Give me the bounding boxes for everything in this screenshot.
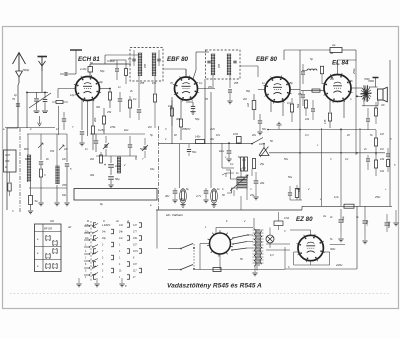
wire x58 <box>57 106 59 135</box>
svg-text:250v: 250v <box>374 196 381 199</box>
svg-text:0,3: 0,3 <box>305 134 309 137</box>
faint fold line <box>10 293 390 295</box>
flat box dial rail <box>74 189 157 201</box>
power transformer TR2 <box>254 229 256 266</box>
arrow across AF choke <box>230 175 248 191</box>
wires under V3 <box>270 101 272 112</box>
svg-text:0,5A: 0,5A <box>284 217 289 220</box>
antenna symbol <box>13 53 26 65</box>
resistor 25k <box>100 155 103 163</box>
wire grid left <box>58 88 76 90</box>
svg-text:2-10p: 2-10p <box>79 68 87 71</box>
wire anode up <box>89 72 91 77</box>
speaker loop wires <box>369 86 378 88</box>
svg-text:10%: 10% <box>233 133 239 136</box>
svg-text:0,1: 0,1 <box>128 57 132 61</box>
svg-text:40v: 40v <box>210 137 215 141</box>
arrow hooks <box>38 143 43 148</box>
svg-text:50p: 50p <box>195 117 200 121</box>
tube V2 EBF80 <box>175 77 198 100</box>
wires misc power <box>340 232 342 238</box>
svg-text:1,32kHz: 1,32kHz <box>102 225 111 227</box>
fuse F2 <box>274 221 283 226</box>
grid feed wire EL84 <box>301 90 325 92</box>
40v cap-resistor pair 2 <box>210 144 212 188</box>
mains switch S2 <box>168 248 180 250</box>
T2 secondary <box>226 54 228 75</box>
svg-text:40v: 40v <box>180 197 185 201</box>
wire V3 right <box>290 89 300 91</box>
svg-text:50μ: 50μ <box>115 177 120 181</box>
ground G2 <box>56 185 58 202</box>
ground G3 <box>66 190 68 202</box>
svg-text:455: 455 <box>218 63 221 68</box>
bottom right rails <box>356 206 358 269</box>
tube V1 ECH81 <box>76 77 100 101</box>
svg-text:20n: 20n <box>329 78 335 81</box>
output transformer TR1 star hatch <box>361 93 372 95</box>
loudspeaker LS1 <box>378 89 384 100</box>
svg-text:GR: GR <box>50 220 54 223</box>
svg-text:30k: 30k <box>90 173 95 177</box>
svg-text:f=460k: f=460k <box>107 59 116 63</box>
svg-text:500p: 500p <box>23 68 30 72</box>
electrolytic C24 <box>339 219 344 221</box>
capacitor under T1 <box>137 109 141 111</box>
wire feed to mains switch <box>156 210 158 249</box>
T1 secondary coil <box>151 53 153 76</box>
svg-text:5000p: 5000p <box>388 221 391 228</box>
capacitor C12 <box>118 98 122 100</box>
svg-text:20k: 20k <box>89 158 95 161</box>
coil antenna L1 <box>27 155 29 182</box>
contact pair 1 <box>84 225 89 227</box>
svg-text:EL 84: EL 84 <box>332 60 349 67</box>
svg-text:84o: 84o <box>150 167 155 171</box>
contact pair 7 <box>84 267 89 269</box>
svg-text:160μ: 160μ <box>115 164 122 168</box>
capacitor C4 <box>62 118 66 120</box>
svg-text:MW: MW <box>24 148 29 151</box>
ground G6 <box>96 278 98 283</box>
resistor 10k above bus <box>237 137 242 144</box>
svg-text:0,1: 0,1 <box>199 82 203 85</box>
T1 trimmers <box>132 58 135 60</box>
wire top small <box>110 59 126 61</box>
wires AF cluster <box>221 143 223 168</box>
svg-text:AVC: AVC <box>209 128 215 131</box>
svg-text:LW: LW <box>64 148 68 151</box>
capacitor 50n below bus <box>188 144 190 148</box>
capacitor C6 <box>80 131 84 133</box>
svg-text:455: 455 <box>140 82 145 85</box>
resistor R8 <box>179 119 182 127</box>
svg-text:VD: VD <box>381 104 385 107</box>
resistor R14 <box>328 113 331 121</box>
svg-text:Ae: Ae <box>331 43 336 47</box>
wires under V1 <box>81 100 83 130</box>
resistor under T1 <box>153 94 156 102</box>
svg-text:50p: 50p <box>246 90 251 93</box>
motor/turntable circle M1 <box>210 233 231 254</box>
AF choke block <box>237 177 247 179</box>
ground up symbol on tone row <box>278 125 280 130</box>
svg-text:0,5: 0,5 <box>298 93 302 96</box>
svg-text:250v: 250v <box>352 68 356 75</box>
T1 primary coil <box>137 53 139 76</box>
svg-text:ANT: ANT <box>5 153 11 157</box>
contact pair 5 <box>84 253 89 255</box>
svg-text:455: 455 <box>144 63 147 68</box>
T2 trimmers <box>207 60 210 62</box>
heater wires <box>266 249 290 251</box>
table coil glyphs <box>46 236 50 241</box>
variable capacitor gang 2 <box>43 98 48 100</box>
svg-text:470k: 470k <box>110 126 116 129</box>
svg-text:20k: 20k <box>259 181 265 185</box>
resistor R16 <box>374 138 377 146</box>
svg-text:6,3v: 6,3v <box>334 196 339 199</box>
tuning gang arrow <box>29 93 51 108</box>
contact pair 8 <box>84 274 89 276</box>
40v cap-resistor pair 1 <box>179 144 181 188</box>
resistor R9 <box>170 108 173 116</box>
svg-text:135: 135 <box>323 119 327 124</box>
resistor R2 left low <box>29 196 33 205</box>
resistor left margin <box>8 183 11 191</box>
svg-text:2n: 2n <box>363 148 367 151</box>
wires under V2 <box>180 99 182 118</box>
svg-text:+50μ: +50μ <box>365 220 369 226</box>
capacitor under T2 <box>228 89 232 91</box>
TR2 hatching <box>253 229 264 231</box>
IF transformer T2 dashed box <box>206 50 241 79</box>
svg-text:12p: 12p <box>70 93 75 97</box>
wire row y134 <box>27 133 67 135</box>
svg-text:50v: 50v <box>296 187 301 191</box>
svg-text:140v: 140v <box>195 136 201 139</box>
resistor R17 <box>374 160 377 168</box>
ground G5 <box>78 278 80 283</box>
resistor R18 10k upper <box>295 189 298 198</box>
electrolytic C25 <box>363 220 368 222</box>
resistor 1.5k on bus <box>196 140 205 144</box>
resistor R1 <box>56 101 63 104</box>
IF transformer T1 dashed box <box>130 48 163 82</box>
wire V2 right <box>198 88 216 90</box>
ground under transformer <box>254 266 256 272</box>
wires power top <box>278 212 280 216</box>
svg-text:EZ 80: EZ 80 <box>296 216 313 223</box>
wire top right bus <box>284 49 330 51</box>
capacitor C11 <box>115 68 119 70</box>
EZ80 tube V5 <box>298 235 323 260</box>
capacitor above tube <box>64 72 66 76</box>
capacitor C17 <box>311 108 315 110</box>
vertical lines x205/211 <box>204 79 206 144</box>
svg-text:Ai: Ai <box>115 219 119 223</box>
svg-text:20k: 20k <box>93 117 97 123</box>
svg-text:50v: 50v <box>262 127 267 131</box>
svg-text:MW: MW <box>25 157 30 161</box>
resistor third mid <box>252 159 255 169</box>
electrolytic pair mid <box>241 157 244 171</box>
svg-text:50p: 50p <box>100 69 105 73</box>
svg-text:137v: 137v <box>133 251 139 253</box>
contact pair 6 <box>84 260 89 262</box>
coil L5 small <box>307 69 317 71</box>
svg-text:RF GR: RF GR <box>44 227 52 231</box>
wire V2 top to T2 <box>185 69 187 77</box>
padder capacitor <box>94 140 98 142</box>
svg-text:+: + <box>104 163 106 167</box>
V2 plate to T2 <box>193 70 196 79</box>
wire y143.7 bus <box>159 143 253 145</box>
capacitor near R18 <box>288 192 292 194</box>
feedback junction <box>356 95 362 97</box>
cathode parts <box>329 100 331 112</box>
electrolytic C20 50u <box>108 176 114 178</box>
svg-text:HF- Váltható: HF- Váltható <box>166 213 183 217</box>
tube V3 EBF80 <box>265 77 290 102</box>
svg-text:6,3: 6,3 <box>270 254 274 257</box>
capacitor C13 <box>186 101 193 103</box>
ground G4 <box>40 190 42 202</box>
svg-text:300: 300 <box>5 159 10 163</box>
volume pot P1 <box>259 148 269 156</box>
svg-text:10k: 10k <box>305 117 310 121</box>
svg-text:40v: 40v <box>165 194 170 198</box>
wire segments antenna coupling <box>18 83 19 85</box>
wire right of V1 <box>100 88 111 90</box>
wire anode top <box>337 60 339 75</box>
switch contact column dashed <box>90 221 92 282</box>
EZ80 leads <box>310 230 312 235</box>
svg-text:+50μ: +50μ <box>341 216 345 222</box>
svg-text:kHz: kHz <box>152 82 157 85</box>
svg-text:50k: 50k <box>296 103 300 108</box>
svg-text:25k: 25k <box>207 86 213 89</box>
svg-text:0,1: 0,1 <box>133 97 137 101</box>
oscillator coil L3 <box>117 157 119 173</box>
wire left vertical bus lower <box>7 127 18 129</box>
svg-text:0,3: 0,3 <box>287 101 291 105</box>
svg-text:4v: 4v <box>323 214 327 218</box>
wire y155 bus right <box>263 144 265 147</box>
svg-text:4,7v: 4,7v <box>196 194 202 198</box>
resistor R7 <box>128 100 131 108</box>
capacitor C15 <box>301 71 305 73</box>
wire to ground bus <box>240 196 242 210</box>
wire feeds into left cluster <box>27 134 29 155</box>
resistor far right <box>387 160 390 167</box>
contact pair 3 <box>84 239 89 241</box>
svg-text:455: 455 <box>234 82 239 85</box>
wire osc to electro <box>110 134 112 156</box>
right edge ground <box>395 210 397 222</box>
svg-text:50n: 50n <box>192 150 197 154</box>
svg-text:Vadásztöltény R545 és R545 A: Vadásztöltény R545 és R545 A <box>167 283 262 290</box>
chassis T symbol <box>373 77 379 79</box>
switch arms to transformer <box>233 235 247 238</box>
contact pair 2 <box>84 232 89 234</box>
screen dash-dot vertical x158.5 <box>158 126 160 210</box>
svg-text:450: 450 <box>62 183 67 187</box>
svg-text:25μ: 25μ <box>259 163 265 166</box>
ground G1 <box>28 210 33 212</box>
bank brackets col4 <box>139 223 142 227</box>
coil L2 <box>55 166 57 184</box>
wire coil bottoms row <box>29 187 67 189</box>
capacitor C14 <box>258 120 262 122</box>
svg-text:2p: 2p <box>13 94 17 97</box>
bank ground <box>121 278 123 283</box>
right edge cap <box>385 222 390 224</box>
wire plate to transformer <box>351 87 362 89</box>
resistor R10 <box>252 101 256 110</box>
resistor R15 under speaker <box>375 102 377 108</box>
T1 leads down <box>138 76 140 108</box>
wire osc top <box>90 133 145 135</box>
mains fuse on bottom line <box>213 268 221 272</box>
variable capacitor gang 1 <box>34 98 39 100</box>
right verticals <box>299 50 301 200</box>
svg-text:kHz: kHz <box>124 128 129 132</box>
capacitor C21 HFv <box>227 150 232 152</box>
resistor R3 <box>91 126 94 134</box>
junction dots <box>26 92 28 94</box>
svg-text:300: 300 <box>176 117 181 121</box>
svg-text:84o: 84o <box>62 194 67 197</box>
svg-text:6-25p: 6-25p <box>98 128 105 132</box>
capacitor C23 <box>366 158 370 160</box>
svg-text:455kHz: 455kHz <box>182 128 191 131</box>
capacitor C2 <box>40 150 42 160</box>
svg-text:Ae: Ae <box>329 51 334 55</box>
fuse F1 <box>330 48 342 53</box>
earth/aerial 2 symbol <box>38 56 48 58</box>
transformer top lead <box>256 207 258 230</box>
svg-text:KW: KW <box>50 150 55 153</box>
svg-text:1M: 1M <box>246 102 250 107</box>
wire row y=92.4 <box>27 91 48 93</box>
svg-text:220v: 220v <box>335 263 343 267</box>
capacitor C5 top <box>75 50 77 74</box>
electrolytic C19 160u <box>108 164 114 166</box>
coil table box <box>35 224 62 272</box>
choke left hook leads <box>226 170 237 179</box>
pilot lamp circle-X <box>266 235 274 243</box>
svg-text:AF: AF <box>67 226 72 229</box>
svg-text:300v: 300v <box>330 248 336 251</box>
wire transformer bottom <box>256 266 258 271</box>
svg-text:EBF 80: EBF 80 <box>256 56 278 63</box>
resistor R6 <box>108 92 111 100</box>
capacitor C22 <box>254 180 259 182</box>
tube V4 EL84 <box>324 75 351 102</box>
screen dash-dot line <box>19 128 21 212</box>
left margin connector box <box>4 150 17 172</box>
resistor R12 <box>320 66 323 74</box>
resistor R11 <box>290 104 293 112</box>
wire row y127.5 left <box>5 127 55 129</box>
capacitor C16 <box>301 94 305 96</box>
wire bottom left continuation <box>195 269 285 271</box>
resistor 2k <box>39 169 42 177</box>
svg-text:LW: LW <box>62 157 66 161</box>
wire long bus y=210 <box>156 209 302 211</box>
capacitor C3 <box>66 152 68 162</box>
resistor on grid wire <box>312 89 320 92</box>
svg-text:25k: 25k <box>106 110 112 114</box>
resistor R4 <box>102 116 105 124</box>
grid cap component <box>88 67 93 73</box>
capacitor far right <box>386 153 390 155</box>
svg-text:Ω: Ω <box>5 165 7 169</box>
T2 leads <box>212 75 214 88</box>
svg-text:10k: 10k <box>380 157 385 161</box>
svg-text:0,1: 0,1 <box>345 158 349 161</box>
svg-text:25μ: 25μ <box>249 193 255 197</box>
trimmer T2 <box>104 144 106 148</box>
wire V3 left grid <box>258 89 265 91</box>
switch arm S1 <box>252 138 263 144</box>
resistor R5 <box>125 69 128 76</box>
wire bus y=206.3 right <box>302 205 392 207</box>
resistor R19 1k <box>344 204 354 208</box>
svg-text:20: 20 <box>346 134 350 137</box>
wire tone row y129.5 <box>268 129 376 131</box>
svg-text:7000: 7000 <box>364 78 370 81</box>
svg-text:A: A <box>126 219 129 223</box>
svg-text:EBF 80: EBF 80 <box>167 56 189 63</box>
svg-text:0,1: 0,1 <box>230 163 234 166</box>
T2 primary <box>210 54 212 75</box>
AGC arrow down <box>39 116 41 124</box>
resistor R13 50k <box>304 100 307 108</box>
svg-text:5a: 5a <box>35 199 39 203</box>
contact pair 4 <box>84 246 89 248</box>
capacitor on left bus 1 <box>16 103 20 105</box>
wire left vertical bus upper <box>17 85 19 128</box>
wire IF1 enclosure stub <box>104 55 106 64</box>
motor leads <box>200 243 210 245</box>
capacitor C8 <box>128 144 132 146</box>
capacitor C18 <box>366 118 370 120</box>
trimmer C8b <box>143 146 145 150</box>
